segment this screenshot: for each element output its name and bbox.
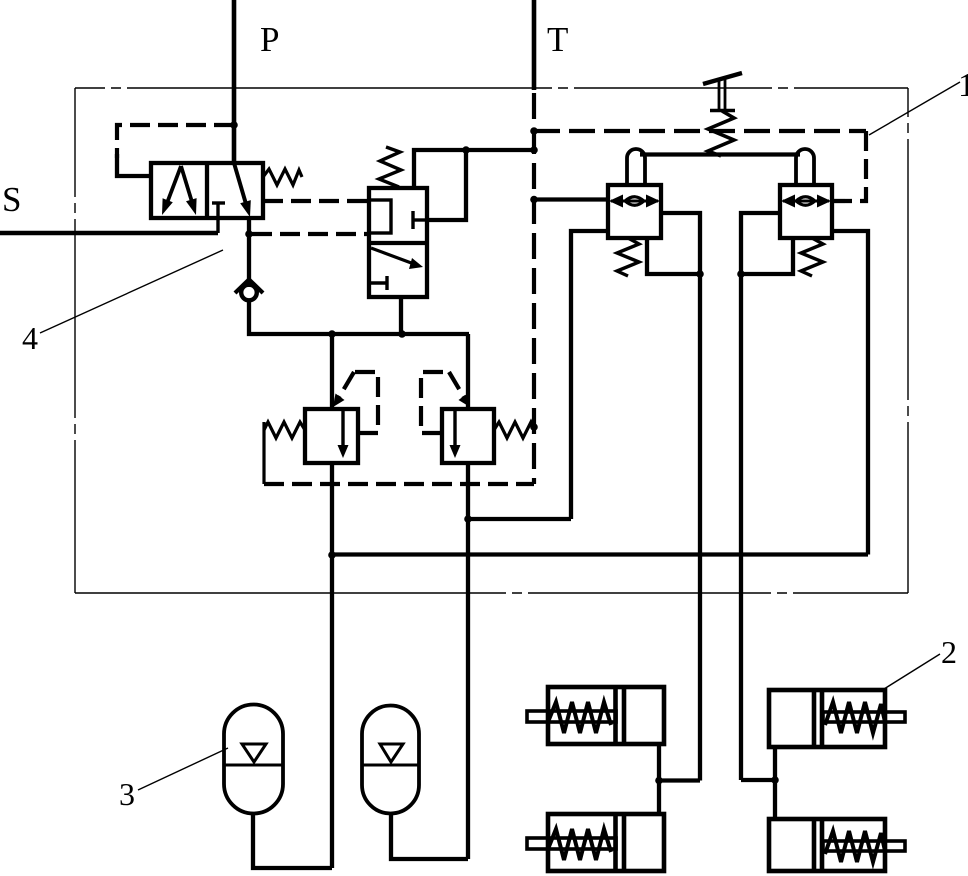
node feedback at T drain — [530, 146, 538, 154]
pressure reducing valve upper blocked port symbol — [413, 211, 427, 229]
node feedback junction — [462, 146, 470, 154]
wire brake valve left outlet loop — [647, 213, 700, 274]
brake valve right body — [780, 185, 832, 238]
wire P path below solenoid valve — [247, 216, 251, 287]
wire relief valve left outlet down to accumulator line — [330, 463, 334, 868]
wire front-left tee to supply — [659, 778, 700, 782]
wire P supply line — [232, 0, 237, 164]
wire accumulator right stem — [391, 813, 468, 859]
relief valve left body — [305, 409, 358, 463]
brake valve left body — [608, 185, 661, 238]
wire cross bus upper — [468, 517, 571, 521]
wire dashed pilot line lower to reducing valve — [252, 232, 369, 236]
spring of pressure reducing valve — [379, 147, 401, 187]
wire supply to left brake valve — [534, 197, 608, 201]
node brake valve right outlet — [737, 270, 745, 278]
spring below brake valve right — [801, 238, 823, 276]
wire reducing valve outlet — [399, 297, 403, 334]
brake cylinder front-right upper — [769, 690, 905, 747]
node front-left brake tee — [655, 777, 663, 785]
enclosure border box (manifold, phantom line) — [75, 88, 908, 593]
brake cylinder front-right lower — [769, 819, 905, 871]
svg-text:3: 3 — [119, 776, 135, 812]
wire right brake line down — [739, 274, 743, 780]
wire reducing valve feedback loop — [414, 150, 534, 220]
spring below brake valve left — [617, 238, 639, 276]
brake valve left poppet cap — [627, 149, 645, 185]
adjustable spring zigzag — [708, 111, 734, 156]
brake cylinder front-left lower — [527, 814, 664, 871]
wire front-right upper port — [773, 747, 777, 780]
svg-text:P: P — [260, 20, 279, 59]
leader line for label 4 — [40, 250, 223, 333]
pressure reducing valve lower blocked port symbol — [370, 276, 387, 290]
solenoid valve 4 body — [151, 163, 263, 218]
svg-text:4: 4 — [22, 320, 38, 356]
wire front-right lower port — [773, 780, 777, 819]
wire solenoid pilot corner — [117, 154, 151, 176]
solenoid valve 4 blocked port T symbol — [212, 203, 225, 233]
wire brake valve right outlet loop — [741, 213, 793, 274]
spring of solenoid valve 4 — [263, 169, 302, 185]
spring of relief valve left — [264, 422, 305, 484]
wire dashed pilot right corner — [845, 131, 866, 201]
pressure reducing valve lower flow arrow — [371, 248, 423, 269]
brake valve right poppet cap — [796, 149, 814, 185]
wire connecting line between brake valve caps — [640, 152, 800, 156]
svg-text:T: T — [547, 20, 568, 59]
wire front-left upper port — [657, 744, 661, 781]
adjustable spring assembly screw bars — [703, 73, 742, 111]
node relief left outlet to cross bus — [328, 551, 336, 559]
dashed pilot of relief valve right — [421, 372, 470, 433]
wire dashed T drain vertical — [532, 93, 536, 484]
brake valve left double flow arrow — [609, 195, 660, 208]
check valve ball — [235, 280, 263, 301]
accumulator right shell — [362, 706, 419, 814]
node T drain top junction — [530, 127, 538, 135]
wire dashed pilot supply top horizontal — [534, 129, 866, 133]
leader line for label 3 — [138, 748, 228, 790]
node below solenoid valve — [245, 230, 253, 238]
node brake valve left outlet — [696, 270, 704, 278]
wire S brake signal line — [0, 231, 218, 236]
wire relief valve right outlet down to accumulator line — [466, 463, 470, 859]
wire dashed pilot from P to solenoid pilot port — [117, 125, 234, 158]
node supply bus middle branch — [398, 330, 406, 338]
accumulator 3 left shell — [224, 705, 283, 814]
svg-text:1: 1 — [958, 67, 968, 104]
svg-text:S: S — [2, 180, 21, 219]
wire dashed drain bottom horizontal — [264, 482, 534, 486]
wire accumulator left stem — [253, 813, 332, 868]
wire T return line — [532, 0, 537, 90]
spring of relief valve right — [494, 422, 535, 438]
dashed pilot of relief valve left — [333, 372, 378, 433]
wire front-left lower port — [657, 781, 661, 815]
wire front-right tee to supply — [741, 778, 775, 782]
wire from check valve to supply bus — [249, 300, 469, 334]
wire dashed pilot line upper to reducing valve — [263, 199, 369, 203]
solenoid valve 4 left position crossed arrows — [162, 166, 197, 215]
wire left brake line down — [698, 274, 702, 781]
node check valve supply junction on drain line — [530, 196, 538, 204]
wire brake valve right supply stub — [832, 199, 845, 203]
brake cylinder front-left upper — [527, 687, 664, 744]
wire brake valve left lower-left port — [571, 231, 608, 519]
relief valve right flow arrow — [450, 411, 461, 458]
brake valve right double flow arrow — [781, 195, 831, 208]
wire relief valve right inlet — [466, 334, 470, 409]
svg-text:2: 2 — [941, 634, 957, 670]
relief valve left flow arrow — [338, 411, 349, 458]
pressure reducing valve pilot piston box — [369, 200, 391, 233]
node supply bus left branch — [328, 330, 336, 338]
node relief right outlet to cross bus — [464, 515, 472, 523]
node front-right brake tee — [771, 776, 779, 784]
leader line for label 1 — [869, 82, 960, 135]
leader line for label 2 — [884, 654, 940, 689]
wire brake valve right lower-right port — [832, 231, 868, 555]
node spring to drain junction — [530, 423, 538, 431]
relief valve right body — [442, 409, 494, 463]
wire relief valve left inlet — [330, 334, 334, 409]
wire cross bus lower — [332, 552, 868, 556]
pressure reducing valve body — [369, 188, 427, 297]
node P pilot junction — [230, 121, 238, 129]
solenoid valve 4 right position flow arrow — [234, 163, 251, 217]
